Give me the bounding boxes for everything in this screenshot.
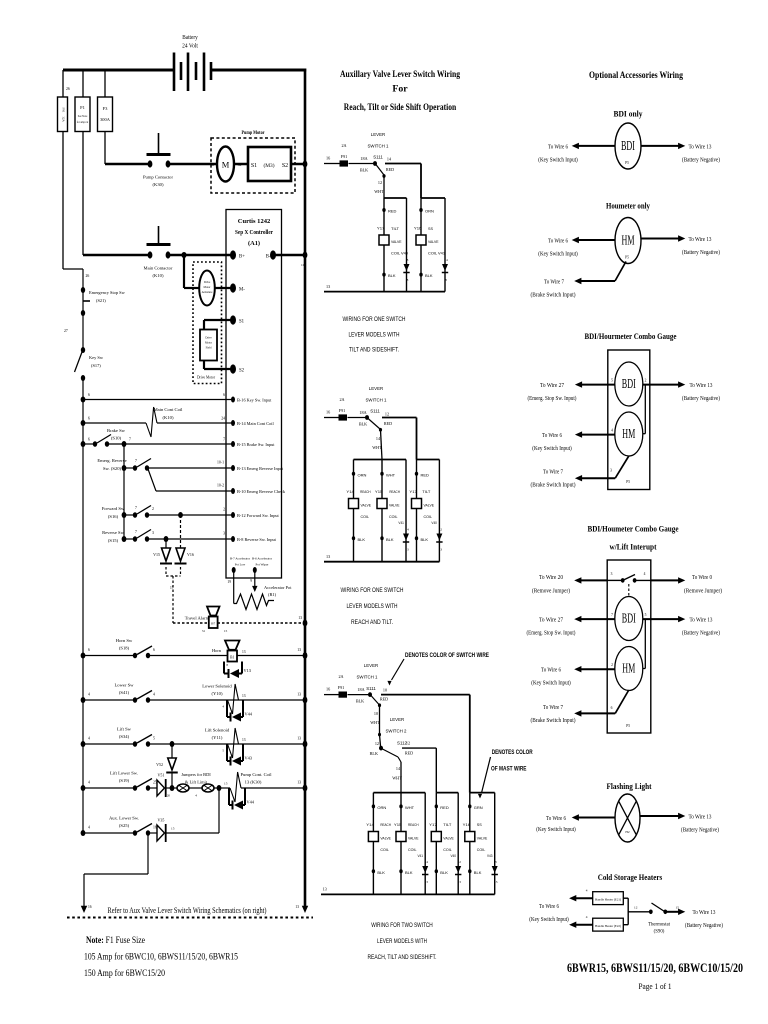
svg-text:LEVER: LEVER	[364, 663, 378, 668]
svg-text:BLK: BLK	[388, 273, 396, 278]
svg-text:HM: HM	[622, 661, 635, 676]
svg-text:F91: F91	[339, 408, 346, 413]
svg-text:Auxillary Valve Lever Switch W: Auxillary Valve Lever Switch Wiring	[340, 69, 460, 80]
jumper for lift limit	[202, 784, 214, 792]
svg-text:13: 13	[439, 548, 443, 552]
node key switch input row	[81, 397, 86, 403]
svg-text:WIRING FOR TWO SWITCH: WIRING FOR TWO SWITCH	[371, 922, 433, 929]
svg-text:To Wire 6: To Wire 6	[539, 904, 559, 910]
drive motor dotted enclosure	[193, 262, 222, 384]
svg-text:16: 16	[326, 410, 330, 415]
switch S21 emergency stop	[82, 269, 84, 290]
fuse F91 12A	[62, 70, 64, 97]
svg-text:2: 2	[645, 379, 647, 383]
svg-text:LEVER MODELS WITH: LEVER MODELS WITH	[377, 938, 427, 945]
diode V35	[148, 832, 157, 834]
svg-text:V40: V40	[431, 521, 437, 525]
svg-text:BLK: BLK	[440, 870, 448, 875]
svg-text:(Battery Negative): (Battery Negative)	[682, 630, 720, 637]
svg-text:12A: 12A	[62, 116, 66, 122]
svg-text:Houmeter only: Houmeter only	[606, 201, 651, 211]
wire ss rail 3	[470, 792, 495, 794]
svg-text:F91: F91	[341, 154, 348, 159]
node GRN wire 3	[468, 804, 471, 808]
wire lower row	[148, 699, 305, 701]
node RED wire	[382, 208, 385, 212]
node V52 junction	[170, 785, 175, 791]
svg-text:A1: A1	[211, 163, 215, 167]
wire tilt rail	[384, 197, 407, 199]
node BLK 2b	[380, 536, 383, 540]
wire tilt rail 3	[436, 792, 458, 794]
svg-text:Y17: Y17	[409, 489, 417, 494]
svg-text:10: 10	[383, 688, 387, 693]
svg-text:B7: B7	[211, 622, 215, 626]
svg-text:(Key Switch Input): (Key Switch Input)	[532, 445, 572, 452]
svg-text:10: 10	[301, 263, 305, 267]
coil Y14 reach valve coil 3	[368, 832, 378, 842]
wire aux lower to pump coil node	[167, 832, 220, 834]
wire ladder feed vertical	[123, 444, 125, 539]
svg-text:Lift Lower Sw.: Lift Lower Sw.	[110, 771, 138, 776]
svg-text:4: 4	[644, 572, 646, 576]
terminal B-	[270, 250, 276, 259]
node lower to bus	[303, 697, 308, 704]
svg-text:SWITCH 2: SWITCH 2	[386, 729, 408, 734]
wire dashed separator	[67, 917, 313, 919]
node BLK 3c	[435, 869, 438, 873]
svg-text:TILT: TILT	[422, 489, 431, 494]
svg-text:VALVE: VALVE	[477, 836, 488, 841]
svg-text:S1: S1	[251, 163, 257, 169]
svg-text:3: 3	[611, 572, 613, 576]
svg-text:5: 5	[645, 613, 647, 617]
wire diode branch V43-3	[494, 793, 496, 895]
svg-text:B-15 Brake Sw. Input: B-15 Brake Sw. Input	[237, 442, 275, 447]
gauge BDI in combo	[615, 362, 643, 406]
svg-text:7: 7	[135, 506, 137, 510]
svg-text:2A: 2A	[341, 143, 346, 148]
svg-text:(Remove Jumper): (Remove Jumper)	[684, 587, 722, 594]
wire heater 1 to key switch	[573, 897, 593, 899]
gauge HM in lift interrupt combo	[615, 647, 643, 691]
svg-text:To Wire 13: To Wire 13	[689, 814, 712, 820]
fuse F3 300A	[104, 70, 106, 97]
wire key switch input B-16	[83, 399, 233, 401]
wire flashing light to battery negative	[640, 815, 679, 817]
coil Y17 tilt valve coil	[379, 235, 389, 245]
coil K30 pump contactor coil	[219, 787, 230, 789]
svg-text:12: 12	[439, 528, 443, 532]
svg-text:VALVE: VALVE	[380, 836, 391, 841]
fuse F1 See Note	[82, 70, 84, 97]
wire key switch to ladder bus	[82, 378, 84, 400]
svg-text:Armature: Armature	[202, 291, 213, 294]
svg-text:13: 13	[458, 880, 462, 884]
svg-text:Y16: Y16	[463, 822, 471, 827]
wire wiper arrow	[254, 570, 256, 586]
svg-text:F91: F91	[338, 685, 345, 690]
svg-text:12: 12	[634, 906, 638, 910]
wire tilt rail 2	[417, 459, 440, 461]
svg-text:(S25): (S25)	[119, 823, 130, 828]
wire BDI to battery negative	[641, 145, 679, 147]
svg-text:LEVER: LEVER	[369, 386, 383, 391]
svg-text:Curtis 1242: Curtis 1242	[238, 218, 271, 225]
svg-text:BDI: BDI	[621, 138, 635, 153]
node ladder feed junction	[122, 441, 127, 447]
svg-text:BLK: BLK	[386, 537, 394, 542]
svg-text:WHT: WHT	[405, 805, 415, 810]
wire 13 exit down	[302, 906, 308, 913]
svg-text:M-: M-	[239, 288, 245, 293]
contactor K10 main contactor contact	[83, 254, 150, 257]
wire travel alarm to right bus dashed	[218, 622, 306, 624]
svg-text:Reach, Tilt or Side Shift Oper: Reach, Tilt or Side Shift Operation	[344, 102, 457, 113]
svg-text:(A1): (A1)	[248, 240, 260, 247]
svg-text:V41: V41	[418, 854, 424, 858]
svg-text:(Emerg. Stop Sw. Input): (Emerg. Stop Sw. Input)	[528, 395, 577, 402]
node BLK 3b	[399, 869, 402, 873]
node forward diode tap	[178, 512, 183, 518]
wire forward switch input B-12	[147, 514, 233, 516]
switch S19 lift lower switch	[81, 785, 86, 791]
pump motor dashed enclosure	[211, 138, 295, 193]
wire B- to right bus	[273, 254, 305, 257]
node brake switch row	[81, 441, 86, 447]
svg-text:To Wire 6: To Wire 6	[542, 433, 562, 439]
svg-text:13: 13	[297, 693, 301, 697]
svg-text:(Key Switch Input): (Key Switch Input)	[538, 156, 578, 163]
svg-text:BDI only: BDI only	[614, 109, 644, 119]
svg-text:Emerg. Reverse: Emerg. Reverse	[97, 458, 126, 463]
svg-text:6: 6	[88, 417, 90, 421]
svg-text:RED: RED	[388, 209, 397, 214]
svg-text:SWITCH 1: SWITCH 1	[368, 144, 390, 149]
svg-text:Y17: Y17	[429, 822, 437, 827]
svg-text:V16: V16	[187, 552, 194, 557]
svg-text:SS: SS	[477, 822, 482, 827]
node ORN wire 3	[372, 804, 375, 808]
svg-text:8: 8	[445, 278, 447, 282]
svg-text:(Battery Negative): (Battery Negative)	[682, 249, 720, 256]
svg-text:F91: F91	[62, 108, 66, 113]
svg-text:BLK: BLK	[421, 537, 429, 542]
svg-text:LEVER: LEVER	[390, 717, 404, 722]
svg-text:2: 2	[152, 507, 154, 511]
wire F3 to pump contactor	[104, 132, 106, 165]
svg-text:13 (K30): 13 (K30)	[245, 780, 262, 785]
svg-text:31: 31	[202, 629, 206, 633]
wire horn row	[148, 655, 305, 657]
svg-text:12: 12	[385, 412, 389, 417]
terminal B-13 Emerg Reverse Input	[231, 465, 235, 471]
svg-text:17: 17	[170, 586, 174, 590]
svg-text:B-: B-	[266, 255, 271, 260]
svg-text:ORN: ORN	[377, 805, 386, 810]
svg-text:B-10 Emerg Reverse Check: B-10 Emerg Reverse Check	[237, 489, 286, 494]
svg-text:To Wire 13: To Wire 13	[690, 383, 713, 389]
svg-text:COIL V40: COIL V40	[391, 251, 409, 256]
svg-text:Forward Sw: Forward Sw	[102, 506, 125, 511]
svg-text:(S19): (S19)	[119, 778, 130, 783]
svg-text:Pot Low: Pot Low	[235, 563, 246, 567]
svg-text:15: 15	[224, 782, 228, 786]
svg-text:To Wire 13: To Wire 13	[689, 237, 712, 243]
node ORN wire	[419, 208, 422, 212]
svg-text:COIL: COIL	[361, 514, 370, 519]
svg-text:To Wire 13: To Wire 13	[689, 144, 712, 150]
svg-text:w/Lift Interupt: w/Lift Interupt	[610, 542, 657, 552]
svg-text:6: 6	[88, 648, 90, 652]
svg-text:300A: 300A	[100, 117, 111, 122]
svg-text:V51: V51	[158, 773, 165, 778]
svg-text:Pump Contactor: Pump Contactor	[143, 175, 173, 180]
svg-text:Horn Sw: Horn Sw	[116, 638, 133, 643]
node junction to drive motor	[181, 252, 186, 258]
svg-text:Lift Sw: Lift Sw	[117, 727, 132, 732]
svg-text:Note: F1 Fuse Size: Note: F1 Fuse Size	[86, 936, 145, 946]
svg-text:Y15: Y15	[375, 489, 383, 494]
svg-text:Y16: Y16	[414, 226, 422, 231]
svg-text:SWITCH 1: SWITCH 1	[366, 398, 388, 403]
svg-text:P5: P5	[625, 161, 629, 165]
svg-text:VALVE: VALVE	[389, 503, 400, 508]
svg-text:Lift Solenoid: Lift Solenoid	[205, 728, 230, 733]
svg-text:2A: 2A	[338, 674, 343, 679]
svg-text:13: 13	[295, 905, 299, 909]
wire heaters common	[623, 897, 628, 899]
svg-text:To Wire 7: To Wire 7	[543, 705, 563, 711]
node aux join	[217, 785, 222, 791]
svg-text:V35: V35	[158, 818, 165, 823]
svg-text:V13: V13	[244, 668, 251, 673]
svg-text:ORN: ORN	[425, 209, 434, 214]
svg-text:S111: S111	[366, 686, 376, 691]
wire lift row	[148, 743, 305, 745]
node WHT wire 3	[399, 804, 402, 808]
svg-text:(K10): (K10)	[163, 415, 174, 420]
svg-text:(S17): (S17)	[91, 363, 101, 368]
svg-text:P5: P5	[625, 256, 629, 260]
svg-text:Y14: Y14	[366, 822, 374, 827]
svg-text:6: 6	[88, 438, 90, 442]
svg-text:26: 26	[86, 274, 90, 278]
svg-text:Main Cont Coil: Main Cont Coil	[154, 407, 184, 412]
svg-text:26: 26	[66, 87, 70, 91]
coil K10 main contactor coil	[83, 422, 146, 424]
svg-text:Drive: Drive	[204, 281, 211, 284]
svg-text:9: 9	[250, 579, 252, 583]
svg-text:OF MAST WIRE: OF MAST WIRE	[491, 766, 527, 773]
svg-text:B-13 Emerg Reverse Input: B-13 Emerg Reverse Input	[237, 466, 284, 471]
svg-text:4: 4	[586, 889, 588, 893]
wire BDI pin2 to HM	[644, 385, 646, 434]
svg-text:7: 7	[223, 438, 225, 442]
wire ss coil branch 3	[469, 793, 471, 895]
svg-text:RED: RED	[380, 697, 388, 702]
svg-text:14: 14	[425, 860, 429, 864]
svg-text:LEVER MODELS WITH: LEVER MODELS WITH	[349, 332, 400, 339]
svg-text:(S10): (S10)	[111, 436, 122, 441]
terminal B-8 Reverse Sw Input	[231, 536, 235, 542]
svg-text:4: 4	[153, 693, 155, 697]
terminal B-15 Brake Sw Input	[231, 441, 235, 447]
wire tilt coil branch	[383, 198, 385, 292]
svg-text:Accelerator Pot: Accelerator Pot	[264, 585, 292, 590]
svg-text:To Wire 6: To Wire 6	[546, 816, 566, 822]
svg-text:Motor: Motor	[204, 286, 211, 289]
svg-text:H2: H2	[625, 830, 629, 834]
svg-text:14: 14	[444, 258, 448, 262]
svg-text:18A: 18A	[359, 410, 366, 415]
node lift to bus	[303, 741, 308, 748]
svg-text:Reverse Sw: Reverse Sw	[102, 530, 124, 535]
gauge BDI in lift interrupt combo	[615, 597, 643, 641]
wire field to S2	[203, 361, 205, 370]
switch S17 key switch	[81, 347, 85, 353]
diode V46 pump coil bypass	[228, 788, 230, 805]
wire right bus vertical 13	[304, 69, 307, 909]
svg-text:DENOTES COLOR OF SWITCH WIRE: DENOTES COLOR OF SWITCH WIRE	[405, 652, 490, 659]
svg-text:HM: HM	[622, 426, 635, 441]
wire emerg reverse check	[148, 469, 156, 491]
wire HM to brake switch input	[615, 262, 626, 282]
wire ss diode branch	[444, 198, 446, 292]
terminal B-16 Key Sw Input	[231, 397, 235, 403]
svg-text:4: 4	[88, 826, 90, 830]
svg-text:SWITCH 1: SWITCH 1	[357, 675, 379, 680]
motor armature drive motor	[199, 271, 215, 306]
svg-text:BLK: BLK	[405, 870, 413, 875]
svg-text:Optional Accessories Wiring: Optional Accessories Wiring	[589, 70, 683, 81]
svg-text:VALVE: VALVE	[424, 503, 435, 508]
wire brake switch to B-15	[107, 443, 233, 445]
wire diodes to travel alarm dashed	[165, 567, 167, 576]
svg-text:(S18): (S18)	[119, 646, 130, 651]
wire junction to armature	[183, 255, 185, 288]
svg-text:Refer to Aux Valve Lever Switc: Refer to Aux Valve Lever Switch Wiring S…	[108, 906, 267, 915]
node BLK 3d	[468, 869, 471, 873]
svg-text:S1: S1	[239, 320, 245, 325]
wire 16 exit down	[147, 833, 149, 874]
svg-text:V41: V41	[398, 521, 404, 525]
svg-text:P5: P5	[626, 480, 630, 484]
svg-text:13: 13	[297, 737, 301, 741]
svg-text:2: 2	[223, 508, 225, 512]
svg-text:B-16 Key Sw. Input: B-16 Key Sw. Input	[237, 398, 272, 403]
wire tilt coil branch 3	[435, 793, 437, 895]
svg-text:7: 7	[129, 438, 131, 442]
svg-text:(Key Switch Input): (Key Switch Input)	[536, 826, 576, 833]
wire reverse switch input B-8	[147, 538, 233, 540]
svg-text:VALVE: VALVE	[391, 239, 402, 244]
wire diode V41 branch	[405, 460, 407, 562]
svg-text:(K10): (K10)	[153, 273, 164, 278]
wire reach rail 3	[373, 792, 425, 794]
svg-text:(Battery Negative): (Battery Negative)	[682, 395, 720, 402]
svg-text:V52: V52	[156, 762, 163, 767]
svg-text:S2: S2	[282, 163, 288, 169]
svg-text:COIL: COIL	[389, 514, 398, 519]
svg-text:Motor: Motor	[205, 342, 212, 345]
svg-text:(Battery Negative): (Battery Negative)	[681, 826, 719, 833]
svg-text:RED: RED	[384, 421, 392, 426]
svg-text:B-8 Reverse Sw. Input: B-8 Reverse Sw. Input	[237, 537, 277, 542]
wire S2 to right bus	[291, 163, 305, 166]
svg-text:RED: RED	[421, 472, 430, 477]
svg-text:13: 13	[297, 648, 301, 652]
svg-text:(Brake Switch Input): (Brake Switch Input)	[531, 482, 576, 489]
svg-text:15: 15	[676, 906, 680, 910]
svg-text:BLK: BLK	[360, 168, 368, 173]
diode V51	[148, 787, 157, 789]
svg-text:To Wire 7: To Wire 7	[544, 280, 564, 286]
svg-text:WHT: WHT	[374, 189, 384, 194]
svg-text:13: 13	[297, 781, 301, 785]
svg-text:Lower Solenoid: Lower Solenoid	[202, 684, 232, 689]
svg-text:For: For	[392, 84, 408, 95]
svg-text:To Wire 20: To Wire 20	[539, 575, 563, 581]
svg-text:TILT: TILT	[443, 822, 452, 827]
svg-text:TILT: TILT	[391, 226, 400, 231]
field winding drive motor field	[200, 330, 217, 361]
svg-text:(Battery Negative): (Battery Negative)	[682, 156, 720, 163]
svg-text:16: 16	[326, 156, 330, 161]
svg-text:Drive Motor: Drive Motor	[197, 376, 216, 380]
svg-text:BDI/Hourmeter Combo Gauge: BDI/Hourmeter Combo Gauge	[585, 331, 677, 341]
node horn to bus	[303, 652, 308, 659]
svg-text:(S21): (S21)	[96, 298, 106, 303]
svg-text:5: 5	[611, 379, 613, 383]
svg-text:12: 12	[378, 180, 382, 185]
svg-text:3: 3	[152, 531, 154, 535]
svg-text:4: 4	[611, 429, 613, 433]
svg-text:Key Sw: Key Sw	[89, 355, 104, 360]
node BLK ss	[419, 273, 422, 277]
svg-text:(Key Switch Input): (Key Switch Input)	[531, 680, 571, 687]
wire emerg reverse input B-13	[147, 467, 233, 469]
wire battery negative to right bus	[211, 69, 306, 72]
svg-text:(S15): (S15)	[108, 538, 119, 543]
svg-text:& Lift Limit: & Lift Limit	[185, 780, 208, 785]
wire to emerg stop input 2	[580, 618, 615, 620]
svg-text:V15: V15	[153, 552, 160, 557]
svg-text:To Wire 6: To Wire 6	[548, 144, 568, 150]
svg-text:B-12 Forward Sw. Input: B-12 Forward Sw. Input	[237, 513, 280, 518]
svg-text:Cold Storage Heaters: Cold Storage Heaters	[598, 872, 663, 882]
svg-text:F3: F3	[103, 106, 109, 111]
svg-text:15: 15	[171, 827, 175, 831]
wire battery positive bus	[63, 69, 174, 72]
wire HM to key switch input	[578, 239, 615, 241]
wire field to S1	[203, 320, 205, 330]
svg-text:3: 3	[610, 469, 612, 473]
svg-text:WHT: WHT	[370, 720, 380, 725]
svg-text:BDI: BDI	[622, 611, 636, 626]
wire diode V40 branch	[438, 460, 440, 562]
wire reach coil 1 branch	[353, 460, 355, 562]
node reverse diode tap	[164, 536, 169, 542]
svg-text:To Wire 27: To Wire 27	[540, 383, 564, 389]
svg-text:VALVE: VALVE	[443, 836, 454, 841]
wire ss rail	[421, 197, 445, 199]
svg-text:13: 13	[298, 616, 302, 620]
svg-text:To Wire 13: To Wire 13	[693, 910, 716, 916]
svg-text:4: 4	[88, 737, 90, 741]
pump motor field S1 (M3) S2	[248, 147, 291, 181]
svg-text:REACH: REACH	[380, 822, 391, 827]
